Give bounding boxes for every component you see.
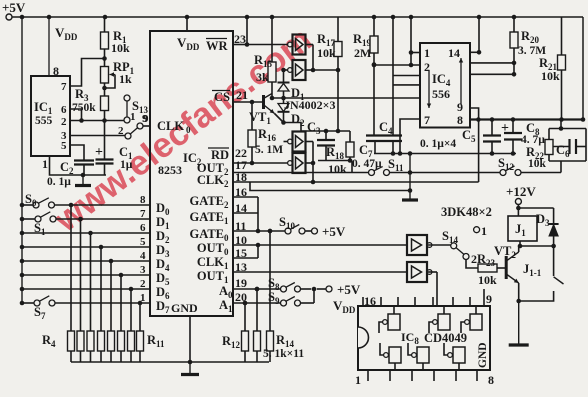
node +5V terminal S8 [326,286,332,292]
wire R15 to VT1 collector node [271,82,273,98]
wire data line D3 [22,246,150,248]
IC4 internal arrows [428,70,430,108]
svg-text:+5V: +5V [337,282,361,297]
wire pin2 node line [374,64,420,66]
switch S9 [281,300,287,306]
wire IC4 pin14 to rail [470,51,479,53]
svg-text:8253: 8253 [158,163,182,177]
wire CLK1 bracket [233,257,258,259]
inverter IC8 top 1 [388,314,400,330]
svg-text:0. 1µ: 0. 1µ [47,176,71,188]
svg-text:1: 1 [355,373,361,387]
inverter IC8 top 2 [438,314,450,330]
resistor R21 10k [561,17,563,55]
svg-text:OUT: OUT [197,269,225,283]
switch S1 on D1 [22,218,35,220]
wire IC4 pin9 jog [470,108,479,120]
resistor R23 10k [478,264,497,272]
svg-text:5: 5 [61,140,67,152]
IC U2 8253 timer-counter IC2 body [150,31,233,316]
svg-text:JN4002×3: JN4002×3 [284,98,336,112]
wire IC4 pin7 to cap bus [400,119,420,154]
resistor R4 5.1k [70,205,72,331]
switch S10 [285,228,291,234]
buffer gate G6 [407,262,427,282]
resistor R8 5.1k [110,261,112,331]
svg-text:CS: CS [214,90,230,104]
wire IC4 pin1 stub [411,52,420,54]
wire D2 to C3 top node [284,123,351,132]
switch S13 arm and pole 9 [137,123,143,129]
resistor R15 3k supply leg [271,17,273,62]
svg-text:8: 8 [457,113,463,127]
svg-text:750k: 750k [72,102,96,114]
resistor R17 10k [337,17,339,42]
svg-text:7: 7 [61,81,67,93]
wire IC4 pin8 output line [470,118,583,120]
wire data line D4 [22,260,150,262]
svg-text:CLK: CLK [197,173,224,187]
svg-text:GND: GND [477,342,489,368]
svg-text:GATE: GATE [190,210,225,224]
resistor R9 5.1k [120,275,122,331]
svg-text:1: 1 [424,46,430,60]
wire S13 to CLK0 [143,125,150,127]
svg-text:10k: 10k [478,273,497,287]
wire IC8 bottom pin stubs [367,370,369,381]
wire +5V top rail [12,16,583,18]
inverter IC8 bottom 2 [417,347,429,363]
capacitor C3 0.1u [325,131,327,140]
node +5V terminal S10 [312,228,318,234]
resistor R5 5.1k [80,219,82,331]
wire WR pin23 to rail and gate G1 [233,44,247,46]
svg-text:14: 14 [448,46,460,60]
svg-text:2: 2 [224,200,229,210]
inverter IC8 bottom 1 [389,347,401,363]
svg-text:GATE: GATE [190,227,225,241]
ground under C2 [82,175,84,185]
relay coil J1 [508,216,537,241]
switch S0 on D0 [22,204,33,206]
wire data line D6 [22,288,150,290]
switch S14 [451,243,457,249]
node +5V terminal [6,14,12,20]
svg-text:555: 555 [35,115,53,127]
resistor R1 10k [104,17,106,32]
svg-text:1: 1 [42,157,48,171]
capacitor C6 [549,128,586,130]
svg-text:3DK48×2: 3DK48×2 [441,205,492,219]
svg-text:+12V: +12V [506,184,536,199]
svg-text:GND: GND [171,301,198,315]
wire IC4 right aux pins to R20 leg [470,62,514,64]
resistor R16 5.1M [251,102,253,130]
wire IC1 pin6 to pin2 line [70,109,82,121]
capacitor C7 0.47u [366,134,384,136]
svg-text:CD4049: CD4049 [424,331,467,345]
wire IC4 left aux pins [393,75,420,77]
switch S13 [124,95,130,101]
wire lower return line [250,182,410,191]
inverter gate G4 [288,161,293,166]
wire IC2 VDD stub [186,17,188,31]
svg-text:7: 7 [424,113,430,127]
svg-text:0: 0 [228,290,233,300]
resistor R7 5.1k [100,247,102,331]
svg-text:CLK: CLK [157,119,184,133]
svg-text:+: + [95,145,103,160]
wire G1 G2 outputs join [306,44,314,46]
svg-text:1: 1 [481,224,487,238]
svg-text:2: 2 [224,167,229,177]
wire CLK2 line 18 [233,181,479,183]
wire rail to pin1/pin2 drop [410,17,412,65]
svg-text:10k: 10k [317,46,336,60]
svg-text:5. 1M: 5. 1M [255,144,283,156]
svg-text:OUT: OUT [197,241,225,255]
IC U1 555 timer IC1 body [31,76,70,156]
svg-text:1k: 1k [119,72,132,86]
wire timing node line [272,97,420,99]
svg-text:9: 9 [143,113,149,125]
ground middle [402,198,418,201]
wire G2 input stub [284,69,288,71]
svg-text:1: 1 [130,111,136,123]
IC U4 556 dual timer IC4 body [420,43,470,128]
switch S7 on D7 [22,302,34,304]
svg-text:GATE: GATE [190,194,225,208]
wire S11 to S12 [389,172,500,174]
wire G6 output to IC8 [426,271,437,273]
wire data line D5 [22,274,150,276]
capacitor C2 0.1u [74,159,94,161]
wire C3 bottom node to S11 [318,160,352,162]
wire VT2 emitter down [518,283,520,301]
resistor R18 10k [349,131,351,142]
wire RD line to gate G4 [233,162,287,164]
resistor R20 3.7M [513,17,515,32]
capacitor C8 4.7u polarized [512,120,514,134]
svg-text:9: 9 [457,100,463,114]
node RP1-R3 junction [104,83,106,96]
svg-text:556: 556 [432,87,450,101]
wire IC1 pin3 output to S13 contact 2 [70,135,126,137]
potentiometer RP1 1k [104,59,106,67]
switch S8 [281,286,287,292]
svg-text:5. 1k×11: 5. 1k×11 [263,348,304,360]
transistor VT2 [505,256,508,279]
wire IC1 pin8 supply stub [48,17,50,76]
wire OUT2 line 17 through S11 [233,172,369,174]
wire +12V to relay coil [517,205,519,217]
svg-text:10k: 10k [528,158,547,170]
inverter IC8 top 3 [470,314,482,330]
wire R17 chain down [337,57,339,132]
wire IC1 pin5 to C2 [70,145,84,160]
svg-text:2: 2 [118,125,124,137]
svg-text:+: + [501,121,509,136]
svg-text:21: 21 [236,88,248,102]
diode D2 JN4002 [278,104,289,112]
capacitor C5 0.1u [491,120,493,136]
svg-text:0. 1µ×4: 0. 1µ×4 [420,138,456,150]
resistor R13 5.1k [256,289,258,331]
ground main [189,362,191,373]
wire rail drop to C7 [373,17,375,36]
svg-text:0: 0 [224,247,229,257]
IC U8 CD4049 hex inverter IC8 body [358,306,490,370]
diode D1 JN4002 [283,69,285,83]
wire IC1 pin7 to R1/RP1 junction [70,59,105,87]
switch S11 [369,170,375,176]
wire G5 output to S14 [426,244,451,246]
svg-text:0: 0 [224,233,229,243]
svg-text:19: 19 [235,276,247,290]
inverter gate G3 [288,139,293,144]
svg-text:0. 47µ: 0. 47µ [352,158,382,170]
svg-text:10k: 10k [328,162,347,176]
wire GATE0 line to S10 [233,230,285,232]
ground right [509,343,529,346]
wire emitter node to ground [518,301,520,344]
resistor R14 5.1k [269,231,271,331]
wire IC2 GND lead [189,316,191,362]
svg-text:A: A [219,298,228,312]
wire R21 to R22 C6 top [560,120,562,129]
inverter IC8 bottom 3 [453,347,465,363]
wire IC1 pin1 to ground line [50,156,107,175]
inverter gate G1 [288,42,293,47]
wire OUT1 line to gate G6 [233,271,407,273]
inverter gate G2 [288,68,293,73]
resistor R11 5.1k [139,303,141,331]
svg-text:RD: RD [211,148,229,162]
svg-text:+5V: +5V [2,0,26,15]
wire data line D2 [22,232,150,234]
resistor R10 5.1k [130,289,132,331]
resistor R6 5.1k [90,233,92,331]
svg-text:16: 16 [364,294,376,308]
diode D3 flyback [549,223,559,225]
svg-text:2: 2 [61,116,67,128]
svg-text:0: 0 [186,125,191,135]
transistor VT1 [262,95,265,109]
wire right edge drop [582,17,584,120]
relay contact J1-1 [553,246,555,276]
svg-text:10k: 10k [111,41,130,55]
svg-text:A: A [219,284,228,298]
capacitor C4 0.1u [384,134,402,136]
capacitor C1 1u polarized [104,121,106,160]
wire GATE2 GATE1 bracket [233,196,258,198]
svg-text:1: 1 [228,304,233,314]
wire left data bus [21,17,23,303]
wire coil bottom node [519,241,521,246]
wire A1 line to S9 [233,302,281,304]
wire OUT0 line to gate G5 [233,244,407,246]
wire IC1 pin2 threshold line [70,120,127,122]
svg-text:2: 2 [224,179,229,189]
wire bottom resistor bus [71,361,269,363]
buffer gate G5 [407,235,427,255]
wire A0 line to S8 [233,288,281,290]
wire S14 to R23 [466,259,478,268]
wire R3 to pin2 node [104,111,106,121]
svg-text:3k: 3k [256,70,269,84]
svg-text:1µ: 1µ [120,159,133,171]
wire cap bottom bus to ground [374,153,516,155]
resistor R22 10k [548,129,550,140]
wire S12 to R22 C6 network [521,172,561,174]
svg-text:WR: WR [206,39,229,53]
svg-text:1: 1 [224,216,229,226]
node R1-RP1 junction [104,49,106,59]
wire G3 input stub [284,141,288,143]
svg-text:6: 6 [61,104,67,116]
wire RP1 wiper tie [110,74,116,76]
wire +12V branch to D3 [518,207,553,209]
svg-text:10k: 10k [541,69,560,83]
svg-text:1: 1 [224,261,229,271]
wire R23 to VT2 base [497,267,506,269]
svg-text:+5V: +5V [322,224,346,239]
svg-text:8: 8 [488,373,494,387]
wire middle ground stem [409,154,411,201]
svg-text:9: 9 [486,292,492,306]
svg-text:CLK: CLK [197,255,224,269]
resistor R12 5.1k [244,303,246,331]
resistor R3 750k [101,96,109,111]
switch S12 [500,170,506,176]
svg-text:2M: 2M [354,46,371,60]
wire G3 G4 outputs join to CLK2 line [306,141,314,143]
wire IC8 top pin stubs [362,297,364,306]
